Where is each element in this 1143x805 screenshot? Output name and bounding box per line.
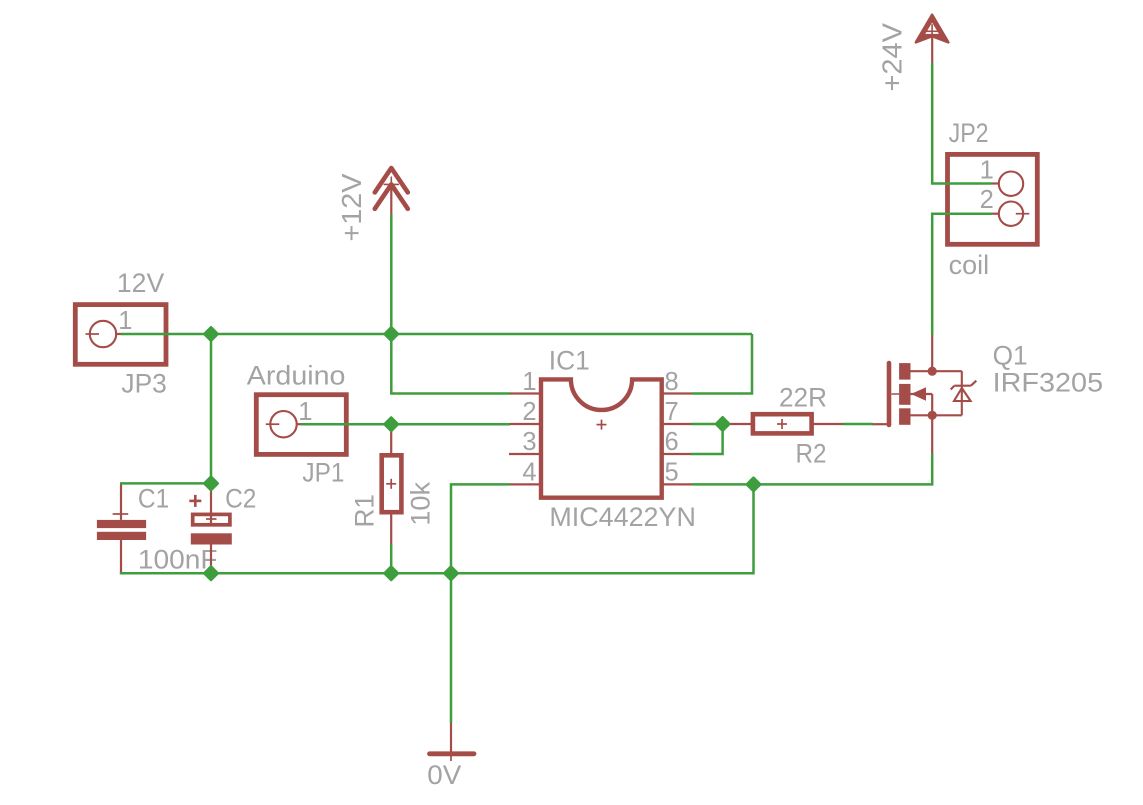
wire bus to IC pin 1: [391, 334, 510, 394]
junction ground bus at R1: [385, 567, 398, 580]
junction at C1/C2 node: [204, 477, 217, 490]
junction ground bus at 0V drop: [444, 567, 457, 580]
svg-text:IC1: IC1: [549, 345, 590, 375]
resistor R1: [382, 424, 402, 544]
wire R1 bottom to ground bus: [390, 544, 393, 573]
wire JP3 branch down to C1/C2 node: [210, 334, 213, 483]
junction at IC pin7/pin6 net: [716, 417, 729, 430]
IC1 pin stubs: [509, 394, 692, 485]
svg-text:coil: coil: [949, 250, 990, 280]
svg-text:0V: 0V: [427, 760, 461, 790]
resistor R2: [720, 414, 844, 433]
svg-text:+24V: +24V: [877, 22, 908, 91]
wire IC pin 6 up to pin7 net: [691, 424, 723, 454]
capacitor C1: [97, 484, 146, 573]
connector JP3: [75, 305, 166, 365]
svg-text:12V: 12V: [117, 268, 164, 298]
ground symbol 0V: [430, 723, 475, 761]
wire riser down to IC pin 8: [692, 334, 752, 394]
svg-text:3: 3: [522, 428, 536, 456]
svg-text:7: 7: [665, 398, 679, 426]
wire IC pin 4 to ground riser: [451, 484, 510, 573]
svg-text:100nF: 100nF: [138, 545, 218, 575]
svg-text:JP2: JP2: [949, 118, 989, 148]
op-amp/driver IC1 MIC4422YN body: [541, 379, 662, 497]
wire +12V arrow drop: [390, 215, 393, 335]
transistor Q1 IRF3205: [872, 335, 937, 454]
svg-text:4: 4: [522, 459, 536, 487]
svg-text:8: 8: [665, 368, 679, 396]
wire ground bus: [120, 484, 754, 573]
capacitor C2 (polarized): [189, 483, 232, 573]
svg-text:1: 1: [980, 156, 994, 184]
wire IC pin 7 to junction: [691, 423, 723, 426]
wire ground drop to 0V: [450, 573, 453, 723]
svg-text:+12V: +12V: [336, 173, 367, 242]
junction at JP3 branch: [204, 327, 217, 340]
supply symbol +24V (solid dart arrow): [916, 15, 948, 63]
body diode of Q1: [932, 371, 976, 415]
wire JP2 pin 1 up to +24V: [932, 63, 991, 184]
svg-text:1: 1: [118, 307, 132, 335]
svg-text:C1: C1: [138, 484, 169, 514]
junction ground bus at C2: [204, 567, 217, 580]
svg-text:2: 2: [522, 398, 536, 426]
wire Q1 drain up to JP2 pin 2: [932, 214, 991, 335]
supply symbol +12V: [375, 168, 408, 209]
svg-text:2: 2: [980, 186, 994, 214]
junction at R1 top / IC pin 2: [385, 418, 398, 431]
svg-text:R1: R1: [350, 494, 380, 528]
svg-text:5: 5: [665, 459, 679, 487]
svg-text:1: 1: [522, 368, 536, 396]
svg-text:C2: C2: [225, 484, 256, 514]
wire C node to C1 top: [120, 482, 211, 485]
junction at pin5 net / ground riser: [747, 478, 760, 491]
svg-text:JP1: JP1: [302, 457, 344, 487]
svg-text:R2: R2: [796, 439, 827, 469]
connector JP1: [256, 395, 346, 455]
svg-text:22R: 22R: [779, 383, 827, 413]
svg-text:1: 1: [298, 398, 312, 426]
junction at +12V bus: [385, 327, 398, 340]
connector JP2: [948, 154, 1038, 244]
wires (green nets): [120, 63, 992, 724]
svg-text:MIC4422YN: MIC4422YN: [549, 502, 696, 532]
svg-text:Q1: Q1: [993, 341, 1028, 371]
svg-text:10k: 10k: [406, 481, 436, 525]
svg-text:6: 6: [665, 428, 679, 456]
svg-text:JP3: JP3: [121, 368, 166, 398]
svg-text:Arduino: Arduino: [247, 360, 346, 390]
wire JP1 to IC pin 2: [301, 423, 510, 426]
svg-text:IRF3205: IRF3205: [993, 368, 1104, 398]
wire IC pin 5 to Q1 source: [692, 454, 932, 484]
wire top bus JP3 to pin8 riser: [121, 333, 752, 336]
wire R2 to Q1 gate: [843, 423, 873, 426]
